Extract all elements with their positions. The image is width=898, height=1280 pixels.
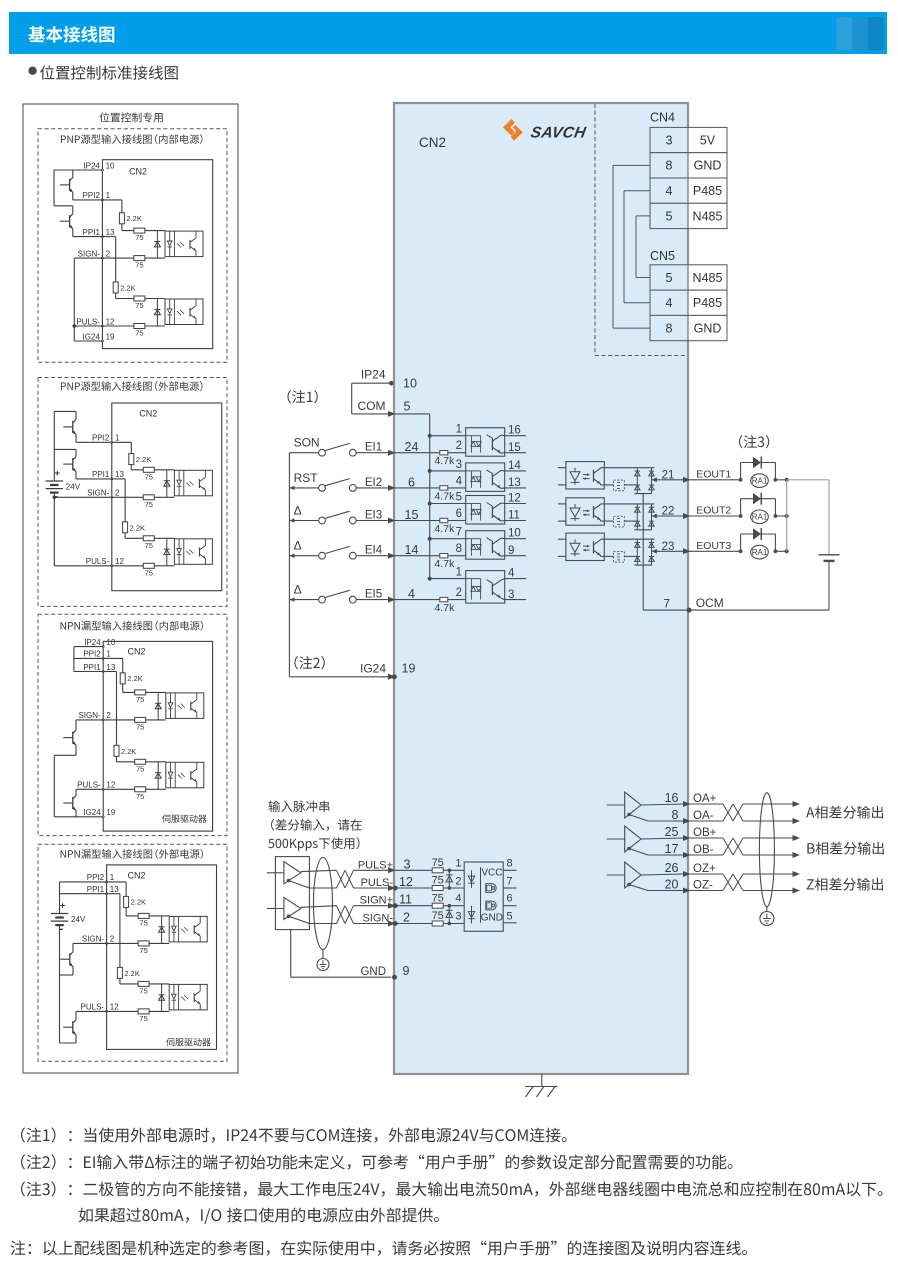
svg-text:SON: SON (294, 436, 320, 450)
svg-text:24: 24 (405, 440, 419, 454)
svg-text:2: 2 (106, 711, 111, 720)
svg-text:IG24: IG24 (83, 332, 101, 341)
svg-text:EI2: EI2 (365, 477, 382, 489)
svg-text:26: 26 (665, 861, 679, 875)
svg-text:PULS-: PULS- (76, 317, 100, 326)
svg-text:15: 15 (508, 442, 521, 454)
svg-text:75: 75 (432, 910, 444, 922)
svg-text:CN2: CN2 (128, 871, 146, 881)
svg-text:2.2K: 2.2K (136, 455, 151, 464)
svg-text:RA1: RA1 (752, 548, 768, 557)
svg-text:24V: 24V (71, 915, 86, 924)
svg-text:2: 2 (403, 911, 410, 925)
svg-text:GND: GND (481, 913, 503, 924)
svg-text:Δ: Δ (294, 539, 302, 553)
svg-text:3: 3 (508, 589, 514, 601)
svg-text:12: 12 (106, 317, 115, 326)
svg-text:6: 6 (408, 475, 415, 489)
svg-text:IP24: IP24 (83, 161, 100, 170)
svg-text:6: 6 (507, 893, 513, 905)
svg-text:1: 1 (455, 857, 461, 869)
svg-text:75: 75 (432, 875, 444, 887)
svg-text:2.2K: 2.2K (126, 214, 141, 223)
svg-text:RST: RST (294, 471, 319, 485)
svg-text:CN2: CN2 (129, 167, 147, 177)
svg-text:75: 75 (139, 986, 147, 995)
svg-text:PULS+: PULS+ (358, 859, 393, 871)
svg-text:EOUT2: EOUT2 (696, 505, 731, 517)
svg-text:PPI2: PPI2 (83, 191, 101, 200)
svg-text:PPI1: PPI1 (83, 663, 101, 672)
svg-text:IG24: IG24 (83, 808, 101, 817)
svg-text:1: 1 (106, 650, 111, 659)
svg-text:14: 14 (508, 460, 521, 472)
svg-text:EI1: EI1 (365, 442, 382, 454)
svg-text:SIGN-: SIGN- (82, 935, 105, 944)
svg-text:EI3: EI3 (365, 510, 382, 522)
svg-text:7: 7 (507, 875, 513, 887)
svg-text:5: 5 (507, 911, 513, 923)
svg-text:SAVCH: SAVCH (529, 125, 587, 142)
svg-text:16: 16 (665, 791, 679, 805)
svg-text:9: 9 (403, 964, 410, 978)
svg-text:2.2K: 2.2K (131, 898, 146, 907)
svg-text:75: 75 (135, 261, 143, 270)
svg-text:10: 10 (106, 638, 115, 647)
svg-text:N485: N485 (693, 271, 723, 285)
svg-text:VCC: VCC (481, 868, 502, 879)
svg-text:4.7k: 4.7k (434, 490, 455, 502)
svg-text:SIGN-: SIGN- (78, 711, 101, 720)
svg-text:GND: GND (694, 159, 722, 173)
svg-text:25: 25 (665, 825, 679, 839)
svg-text:PULS-: PULS- (361, 877, 394, 889)
svg-text:PPI1: PPI1 (87, 885, 105, 894)
svg-text:5: 5 (456, 492, 462, 504)
svg-text:2.2K: 2.2K (120, 284, 135, 293)
svg-text:11: 11 (508, 510, 520, 522)
svg-text:3: 3 (404, 857, 411, 871)
svg-text:2: 2 (115, 489, 120, 498)
svg-text:75: 75 (139, 946, 147, 955)
svg-text:2: 2 (106, 249, 111, 258)
svg-text:5: 5 (666, 271, 673, 285)
svg-text:13: 13 (508, 477, 521, 489)
svg-text:PPI2: PPI2 (92, 434, 110, 443)
svg-text:SIGN-: SIGN- (362, 913, 393, 925)
svg-text:RA1: RA1 (752, 513, 768, 522)
svg-text:75: 75 (135, 301, 143, 310)
svg-text:7: 7 (663, 596, 670, 610)
svg-text:2: 2 (110, 935, 115, 944)
svg-text:20: 20 (665, 878, 679, 892)
svg-text:4: 4 (456, 475, 463, 487)
svg-text:OCM: OCM (696, 596, 724, 610)
svg-text:4.7k: 4.7k (434, 455, 455, 467)
svg-text:OB+: OB+ (693, 827, 717, 839)
svg-text:8: 8 (672, 808, 679, 822)
svg-text:1: 1 (115, 434, 120, 443)
svg-text:1: 1 (106, 191, 111, 200)
svg-text:5: 5 (666, 209, 673, 223)
svg-text:75: 75 (139, 918, 147, 927)
svg-text:13: 13 (115, 470, 124, 479)
svg-text:EOUT3: EOUT3 (696, 540, 731, 552)
svg-text:IP24: IP24 (84, 638, 101, 647)
svg-text:15: 15 (405, 508, 419, 522)
svg-text:75: 75 (135, 329, 143, 338)
svg-text:75: 75 (432, 892, 444, 904)
svg-text:EOUT1: EOUT1 (696, 468, 731, 480)
svg-text:2.2K: 2.2K (127, 674, 142, 683)
svg-text:21: 21 (662, 469, 675, 481)
svg-text:10: 10 (508, 528, 521, 540)
svg-text:17: 17 (665, 842, 679, 856)
svg-text:1: 1 (456, 567, 462, 579)
svg-text:SIGN-: SIGN- (78, 249, 101, 258)
svg-text:13: 13 (106, 663, 115, 672)
svg-text:75: 75 (136, 792, 144, 801)
svg-text:Δ: Δ (294, 504, 302, 518)
svg-text:1: 1 (456, 424, 462, 436)
svg-text:4: 4 (666, 296, 673, 310)
svg-text:IG24: IG24 (360, 662, 386, 676)
svg-text:4.7k: 4.7k (434, 558, 455, 570)
svg-text:P485: P485 (693, 184, 722, 198)
svg-text:PPI1: PPI1 (92, 470, 110, 479)
svg-text:CN5: CN5 (650, 249, 675, 263)
svg-text:11: 11 (399, 893, 412, 907)
svg-text:12: 12 (508, 493, 521, 505)
svg-text:5: 5 (404, 400, 411, 414)
svg-text:75: 75 (145, 568, 153, 577)
svg-text:2: 2 (456, 587, 462, 599)
svg-text:10: 10 (106, 161, 115, 170)
svg-text:19: 19 (402, 662, 416, 676)
svg-text:24V: 24V (66, 483, 81, 492)
svg-text:75: 75 (139, 1014, 147, 1023)
svg-text:OB-: OB- (693, 844, 714, 856)
svg-text:-: - (60, 923, 64, 935)
svg-text:OZ+: OZ+ (693, 863, 716, 875)
svg-text:4: 4 (455, 893, 461, 905)
svg-text:+: + (60, 901, 66, 912)
svg-text:EI4: EI4 (365, 545, 383, 557)
svg-text:CN4: CN4 (650, 111, 675, 125)
svg-text:75: 75 (136, 722, 144, 731)
svg-text:RA1: RA1 (752, 476, 768, 485)
svg-text:5V: 5V (700, 133, 716, 147)
svg-text:22: 22 (662, 506, 675, 518)
svg-text:OZ-: OZ- (693, 880, 713, 892)
svg-text:9: 9 (508, 545, 514, 557)
svg-text:SIGN-: SIGN- (87, 489, 110, 498)
svg-text:3: 3 (455, 911, 461, 923)
svg-text:PULS-: PULS- (77, 781, 101, 790)
svg-text:75: 75 (136, 695, 144, 704)
svg-text:P485: P485 (693, 296, 722, 310)
svg-text:PPI1: PPI1 (83, 228, 101, 237)
svg-text:75: 75 (145, 500, 153, 509)
svg-text:CN2: CN2 (419, 135, 446, 150)
svg-text:PPI2: PPI2 (87, 873, 105, 882)
svg-text:4: 4 (666, 184, 673, 198)
svg-text:2: 2 (455, 875, 461, 887)
svg-text:2: 2 (456, 440, 462, 452)
svg-text:PULS-: PULS- (86, 557, 110, 566)
svg-text:+: + (55, 468, 61, 479)
svg-text:COM: COM (358, 399, 386, 413)
svg-text:75: 75 (145, 472, 153, 481)
svg-text:4.7k: 4.7k (434, 602, 455, 614)
svg-text:2.2K: 2.2K (124, 969, 139, 978)
svg-text:GND: GND (360, 966, 386, 978)
svg-text:16: 16 (508, 425, 521, 437)
svg-text:8: 8 (507, 857, 513, 869)
svg-text:13: 13 (106, 228, 115, 237)
svg-text:23: 23 (662, 541, 675, 553)
svg-text:2.2K: 2.2K (121, 747, 136, 756)
svg-text:75: 75 (136, 764, 144, 773)
svg-text:8: 8 (456, 543, 462, 555)
svg-text:CN2: CN2 (139, 409, 157, 419)
svg-text:3: 3 (666, 133, 673, 147)
svg-text:7: 7 (456, 527, 462, 539)
svg-text:3: 3 (456, 459, 462, 471)
svg-text:19: 19 (106, 332, 115, 341)
svg-text:SIGN+: SIGN+ (360, 895, 393, 907)
svg-text:Δ: Δ (294, 583, 302, 597)
svg-text:GND: GND (694, 321, 722, 335)
svg-text:OA+: OA+ (693, 793, 717, 805)
svg-text:12: 12 (399, 875, 413, 889)
svg-text:75: 75 (145, 541, 153, 550)
svg-text:PULS-: PULS- (81, 1003, 105, 1012)
svg-text:13: 13 (110, 885, 119, 894)
svg-text:4.7k: 4.7k (434, 523, 455, 535)
svg-text:75: 75 (432, 857, 444, 869)
svg-text:12: 12 (115, 557, 124, 566)
svg-text:14: 14 (405, 543, 419, 557)
svg-text:6: 6 (456, 508, 462, 520)
svg-text:OA-: OA- (693, 810, 714, 822)
svg-text:N485: N485 (693, 209, 723, 223)
svg-text:12: 12 (110, 1003, 119, 1012)
svg-text:75: 75 (135, 233, 143, 242)
svg-text:4: 4 (408, 587, 415, 601)
svg-text:CN2: CN2 (128, 647, 146, 657)
svg-text:10: 10 (403, 376, 417, 390)
svg-text:4: 4 (508, 568, 515, 580)
svg-text:IP24: IP24 (361, 368, 386, 382)
svg-text:19: 19 (106, 808, 115, 817)
svg-text:2.2K: 2.2K (130, 523, 145, 532)
svg-text:1: 1 (110, 873, 115, 882)
svg-text:12: 12 (106, 781, 115, 790)
svg-text:EI5: EI5 (365, 589, 382, 601)
svg-text:8: 8 (666, 321, 673, 335)
svg-text:8: 8 (666, 159, 673, 173)
svg-text:PPI2: PPI2 (83, 650, 101, 659)
